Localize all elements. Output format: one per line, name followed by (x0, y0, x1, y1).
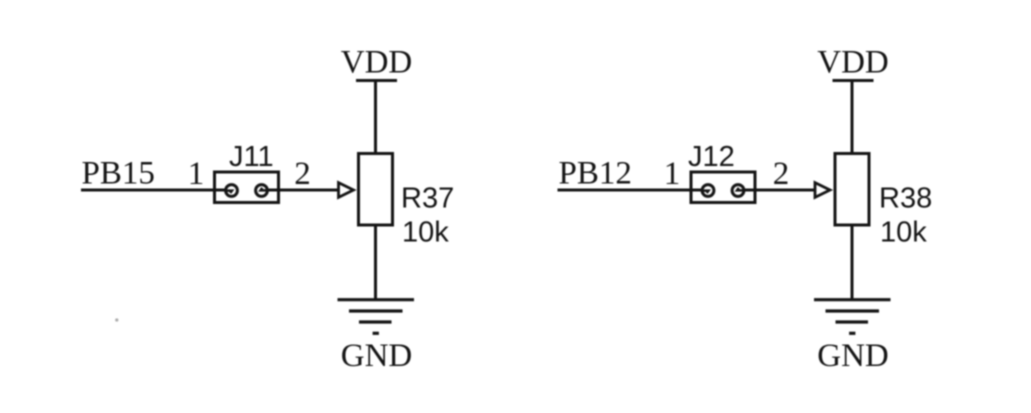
jumper J12 pin 1 pad (702, 185, 714, 197)
svg-text:GND: GND (817, 338, 889, 374)
ground symbol bar 4 (373, 332, 379, 335)
jumper J11 pin 2 stub (261, 188, 267, 191)
ground symbol bar 2 (349, 309, 403, 312)
ground symbol bar 3 (right) (836, 320, 869, 323)
wire VDD to R37 top (374, 81, 377, 154)
wire VDD to R38 top (851, 81, 854, 154)
svg-text:2: 2 (294, 156, 311, 192)
ground symbol bar 4 (right) (849, 332, 855, 335)
wire J11 pin2 to R37 wiper arrow (266, 189, 339, 192)
ground symbol bar 1 (right) (814, 298, 891, 301)
wiper arrow into R38 (815, 183, 830, 198)
power symbol VDD bar (356, 79, 397, 82)
resistor R37 body (359, 154, 393, 226)
ground symbol bar 2 (right) (826, 309, 880, 312)
resistor R38 body (835, 154, 869, 226)
jumper J12 body (691, 172, 755, 203)
wire R37 bottom to ground (374, 225, 377, 301)
svg-text:R37: R37 (401, 183, 454, 215)
jumper J12 pin 1 stub (701, 191, 709, 193)
power symbol VDD bar (right) (833, 79, 874, 82)
svg-text:R38: R38 (879, 183, 932, 215)
jumper J11 pin 1 pad (226, 185, 238, 197)
svg-text:VDD: VDD (817, 45, 889, 81)
stray dot artifact (115, 318, 118, 321)
svg-text:J12: J12 (688, 141, 735, 173)
svg-text:1: 1 (664, 156, 681, 192)
jumper J12 pin 2 stub (737, 188, 743, 191)
svg-text:2: 2 (773, 156, 790, 192)
svg-text:1: 1 (188, 156, 205, 192)
svg-text:PB12: PB12 (559, 156, 632, 192)
svg-text:10k: 10k (402, 217, 449, 249)
svg-text:J11: J11 (229, 141, 274, 173)
jumper J11 body (215, 172, 279, 203)
svg-text:GND: GND (341, 338, 413, 374)
svg-text:VDD: VDD (341, 45, 413, 81)
svg-text:10k: 10k (880, 217, 927, 249)
jumper J12 pin 2 pad (732, 185, 744, 197)
wiper arrow into R37 (339, 183, 354, 198)
wire PB12 to J12 pin1 (558, 189, 704, 192)
wire PB15 to J11 pin1 (81, 189, 227, 192)
jumper J11 pin 1 stub (225, 191, 233, 193)
wire R38 bottom to ground (851, 225, 854, 301)
svg-text:PB15: PB15 (82, 156, 155, 192)
ground symbol bar 3 (359, 320, 392, 323)
wire J12 pin2 to R38 wiper arrow (743, 189, 816, 192)
ground symbol bar 1 (338, 298, 415, 301)
jumper J11 pin 2 pad (256, 185, 268, 197)
